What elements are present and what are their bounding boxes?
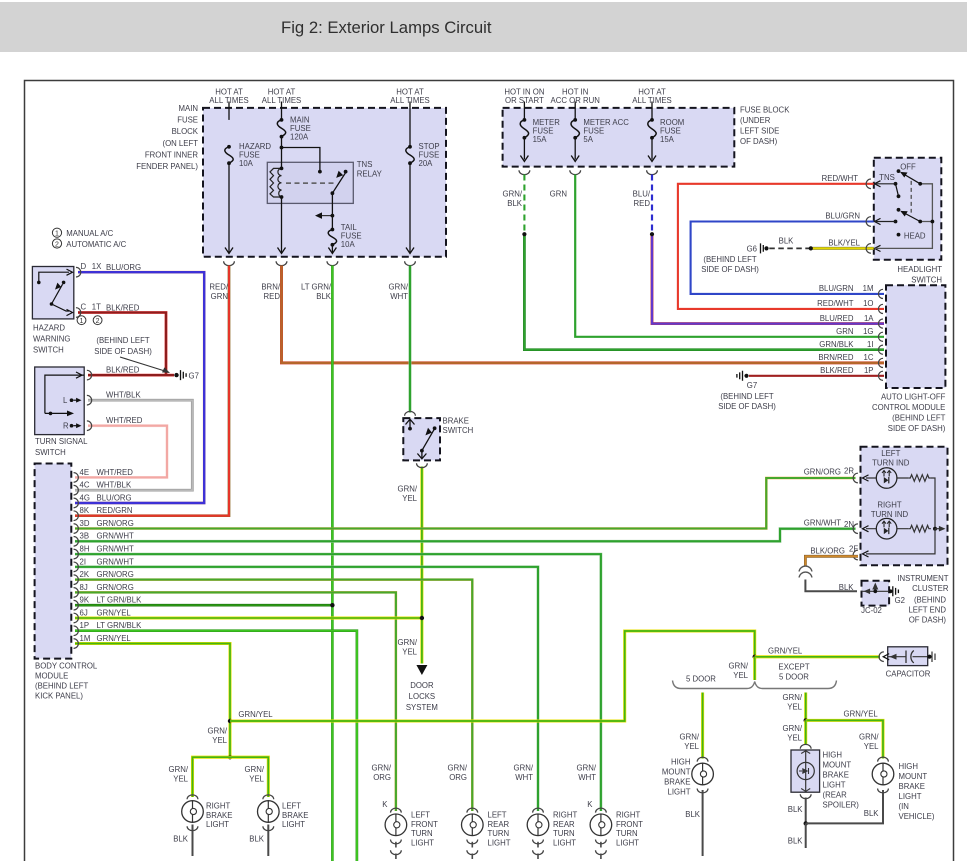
right brake light bulb <box>182 801 204 823</box>
svg-text:BLK: BLK <box>864 809 880 818</box>
wire WHT/BLK turn L to BCM 4C <box>75 400 192 490</box>
brake switch arm <box>420 426 437 452</box>
wire GRN/YEL BCM 6J to brake sw out <box>75 616 422 619</box>
svg-text:4G: 4G <box>80 493 90 502</box>
wire break symbol (interrupt) <box>799 566 812 577</box>
wire BLU/GRN headlight switch to module 1M <box>691 222 884 294</box>
connector below hmbl vehicle bulb <box>878 789 889 793</box>
svg-text:1O: 1O <box>863 299 873 308</box>
headlight switch pin arrow BLK/YEL <box>875 245 881 251</box>
svg-text:(BEHIND LEFTSIDE OF DASH): (BEHIND LEFTSIDE OF DASH) <box>701 255 759 274</box>
connector below fuse block pin 2 <box>570 170 581 174</box>
turn signal switch box <box>35 367 84 435</box>
hazard pin D connector <box>76 267 81 277</box>
hazard warning switch box <box>32 267 73 319</box>
wire BLK/ORG cluster 2F <box>805 556 858 565</box>
legend circled 1 <box>52 228 61 238</box>
svg-text:GRN/ORG: GRN/ORG <box>97 570 134 579</box>
wire meter acc fuse to block bottom <box>574 138 576 160</box>
headlight switch mechanical dashed link <box>910 181 912 213</box>
connector below fuse block pin 1 <box>519 170 530 174</box>
svg-text:GRN: GRN <box>836 327 853 336</box>
wire tail fuse to block bottom <box>331 245 333 253</box>
wire tail fuse branch arrow <box>318 215 333 217</box>
svg-text:BLK: BLK <box>249 835 265 844</box>
hazard circled 1 <box>77 316 86 325</box>
wire below left front turn light <box>395 842 397 848</box>
connector below left rear turn bulb <box>467 840 478 844</box>
junction 6J on GRN/YEL <box>420 616 424 620</box>
right turn resistor <box>908 525 931 532</box>
wire BLK left brake light <box>267 825 269 857</box>
svg-text:BLK: BLK <box>173 835 189 844</box>
svg-text:HEAD: HEAD <box>904 231 926 240</box>
stop fuse 20A <box>406 145 414 165</box>
BCM pin connector row 12 <box>74 613 79 623</box>
cluster pin 2N arrow <box>863 526 869 532</box>
svg-text:BLK/RED: BLK/RED <box>820 366 854 375</box>
auto light-off module pin 1M connector <box>878 289 883 298</box>
capacitor internal symbol <box>888 651 928 664</box>
svg-text:BRN/RED: BRN/RED <box>261 283 280 302</box>
svg-text:DOORLOCKSSYSTEM: DOORLOCKSSYSTEM <box>406 681 438 712</box>
headlight switch pin arrow TNS <box>875 181 881 187</box>
headlight switch pin arrow BLU/GRN <box>875 218 881 224</box>
cluster arrow to right edge <box>935 526 946 532</box>
svg-text:L: L <box>63 396 68 405</box>
wire meter fuse to block bottom <box>523 138 525 160</box>
wire BLK/YEL headlight switch to G6 splice <box>811 247 874 250</box>
svg-text:GRN/ORG: GRN/ORG <box>97 519 134 528</box>
svg-text:BLU/GRN: BLU/GRN <box>825 212 860 221</box>
cluster pin 2R connector <box>853 473 858 483</box>
svg-text:C: C <box>81 303 87 312</box>
svg-text:1G: 1G <box>863 327 873 336</box>
svg-text:GRN/WHT: GRN/WHT <box>804 519 841 528</box>
junction tail branch <box>331 214 335 218</box>
headlight switch HEAD side contacts <box>875 208 923 237</box>
svg-text:TNS: TNS <box>879 173 895 182</box>
svg-text:GRN/YEL: GRN/YEL <box>768 647 803 656</box>
svg-text:Fig 2: Exterior Lamps Circuit: Fig 2: Exterior Lamps Circuit <box>281 18 492 37</box>
wire GRN/YEL except-5-door branch <box>804 693 807 721</box>
wire GRN/WHT BCM 2I to right rear turn light <box>75 567 538 811</box>
wire BRN/RED main fuse to module 1C <box>282 266 885 363</box>
svg-text:GRN/BLK: GRN/BLK <box>819 340 854 349</box>
wire relay coil to block bottom <box>281 197 283 253</box>
auto light-off module pin 1A connector <box>878 319 883 328</box>
meter fuse 15A <box>520 118 528 140</box>
headlight switch internal bus <box>875 184 933 249</box>
TNS relay link dashed line <box>286 182 336 184</box>
connector above right rear turn bulb <box>533 808 544 812</box>
cluster pin 2N connector <box>853 524 858 534</box>
wire GRN/YEL to capacitor <box>755 655 880 658</box>
connector above spoiler HMBL <box>800 744 811 748</box>
svg-text:(BEHINDLEFT ENDOF DASH): (BEHINDLEFT ENDOF DASH) <box>908 596 946 625</box>
svg-text:G2: G2 <box>895 596 905 605</box>
headlight switch box <box>874 158 942 260</box>
connector below right front turn bulb <box>596 840 607 844</box>
svg-text:GRN/WHT: GRN/WHT <box>97 532 134 541</box>
svg-text:BLK/ORG: BLK/ORG <box>810 547 845 556</box>
svg-text:(BEHIND LEFTSIDE OF DASH): (BEHIND LEFTSIDE OF DASH) <box>718 392 776 411</box>
svg-text:9K: 9K <box>80 596 90 605</box>
connector above left rear turn bulb <box>467 808 478 812</box>
BCM pin connector row 10 <box>74 588 79 598</box>
splice dot BLU/RED <box>650 232 654 236</box>
svg-text:OFF: OFF <box>900 162 916 171</box>
svg-text:GRN/ORG: GRN/ORG <box>372 764 392 783</box>
cluster bus junction <box>933 527 937 531</box>
svg-text:BLU/GRN: BLU/GRN <box>819 284 854 293</box>
wire GRN/WHT stop fuse to brake switch <box>409 266 412 413</box>
wire stub bottom left rear turn light <box>471 854 473 860</box>
wire GRN/YEL split to right brake light <box>193 757 231 797</box>
BCM pin connector row 11 <box>74 600 79 610</box>
connector below main fuse block pin 4 <box>405 261 416 265</box>
connector below main fuse block pin 3 <box>327 261 338 265</box>
wire feed stub to main fuse <box>281 102 283 120</box>
ground G7 (right) symbol <box>737 371 743 381</box>
svg-text:G6: G6 <box>747 245 757 254</box>
BCM pin connector row 9 <box>74 575 79 585</box>
wire GRN/BLK meter fuse dashed <box>523 175 525 235</box>
svg-text:1A: 1A <box>864 314 874 323</box>
ground G7 (left) symbol <box>181 370 187 380</box>
svg-text:BLK/YEL: BLK/YEL <box>828 239 860 248</box>
hazard switch wire to pin D <box>37 272 69 284</box>
wire GRN/WHT BCM 8H to right front turn light <box>75 554 601 811</box>
wire stop fuse to block bottom <box>409 163 411 252</box>
JC-02 internal wires <box>862 583 890 595</box>
svg-text:BLU/ORG: BLU/ORG <box>106 263 141 272</box>
left front turn light bulb <box>385 814 407 836</box>
svg-text:RIGHTBRAKELIGHT: RIGHTBRAKELIGHT <box>206 802 232 830</box>
right rear turn light bulb <box>527 814 549 836</box>
svg-text:CAPACITOR: CAPACITOR <box>886 670 931 679</box>
brake switch box <box>403 418 440 460</box>
svg-text:BLK: BLK <box>788 837 804 846</box>
connector below right rear turn bulb <box>533 840 544 844</box>
auto light-off module pin 1P connector <box>878 371 883 380</box>
svg-text:2: 2 <box>55 241 59 248</box>
svg-text:LT GRN/BLK: LT GRN/BLK <box>97 621 143 630</box>
svg-text:GRN/ORG: GRN/ORG <box>804 467 841 476</box>
headlight switch pin connector TNS <box>866 179 871 189</box>
svg-text:WHT/RED: WHT/RED <box>97 468 134 477</box>
junction GRN/YEL at y721 <box>228 719 232 723</box>
TNS relay box <box>267 162 353 203</box>
svg-text:1X: 1X <box>92 262 102 271</box>
svg-text:BLK/RED: BLK/RED <box>106 365 140 374</box>
wire RED/WHT headlight switch to module 1O <box>678 184 884 309</box>
wire below left rear turn light <box>471 842 473 848</box>
headlight switch OFF contact and arm <box>897 169 923 186</box>
cluster bus down to 2F <box>866 529 935 554</box>
BCM pin connector row 6 <box>74 537 79 547</box>
cluster pin 2F connector <box>853 550 858 560</box>
svg-text:BLK/RED: BLK/RED <box>106 304 140 313</box>
wire stub bottom left front turn light <box>395 854 397 860</box>
svg-text:1: 1 <box>80 318 84 325</box>
turn signal top pin connector <box>87 370 92 380</box>
wire BLK right brake light <box>192 825 194 857</box>
connector below right rear turn light <box>533 850 544 854</box>
hazard pin D arrow <box>67 269 73 275</box>
wire BLK/RED G7 to module 1P <box>749 375 884 377</box>
connector below left brake bulb <box>263 826 274 830</box>
svg-text:1: 1 <box>55 231 59 238</box>
wire GRN/ORG BCM 2K to left rear turn light <box>75 580 472 811</box>
wire feed stub to stop fuse <box>409 102 411 148</box>
turn signal R pin connector <box>87 421 92 431</box>
right turn indicator lamp <box>876 518 897 539</box>
turn signal top pin arrow <box>76 372 82 378</box>
wire relay switch to tail fuse <box>331 193 333 229</box>
arrowhead meter feed out <box>520 156 528 162</box>
high mount brake light (5 door) bulb <box>692 763 714 785</box>
bracket 5 door / except 5 door <box>673 681 837 689</box>
svg-text:BLU/RED: BLU/RED <box>820 314 854 323</box>
hazard circled 2 <box>93 316 102 325</box>
svg-text:8K: 8K <box>80 506 90 515</box>
connector below brake switch <box>417 463 428 467</box>
svg-text:3D: 3D <box>80 519 90 528</box>
wire stub bottom right front turn light <box>600 854 602 860</box>
connector below hmbl 5door bulb <box>697 789 708 793</box>
brake switch input arrow <box>406 419 415 429</box>
wire GRN/YEL to in-vehicle HMBL <box>806 720 883 758</box>
wire stub bottom right rear turn light <box>537 854 539 860</box>
svg-text:EXCEPT5 DOOR: EXCEPT5 DOOR <box>778 663 809 682</box>
dot at G7 right <box>744 374 748 378</box>
wire GRN/ORG BCM 8J to left front turn light <box>75 592 396 811</box>
connector below left rear turn light <box>467 850 478 854</box>
header title bar <box>0 2 967 52</box>
svg-text:1P: 1P <box>864 366 874 375</box>
cluster left turn indicator wire <box>866 477 908 479</box>
dot at G6 <box>764 246 768 250</box>
turn signal switch bus wire <box>45 375 84 413</box>
left turn indicator lamp <box>876 468 897 489</box>
wire hazard fuse to block bottom <box>228 163 230 252</box>
connector below main fuse block pin 1 <box>224 261 235 265</box>
svg-text:RED/GRN: RED/GRN <box>209 283 228 302</box>
svg-text:2R: 2R <box>844 467 854 476</box>
svg-text:1M: 1M <box>80 634 91 643</box>
svg-text:2K: 2K <box>80 570 90 579</box>
svg-text:WHT/BLK: WHT/BLK <box>106 390 141 399</box>
svg-text:3B: 3B <box>80 532 90 541</box>
splice dot BLK/YEL-BLK <box>809 246 813 250</box>
junction GRN/YEL brake light split <box>228 755 232 759</box>
svg-text:BLK: BLK <box>779 237 795 246</box>
BCM pin connector row 7 <box>74 549 79 559</box>
brake switch output arrow <box>417 451 426 459</box>
cluster left turn wire to bus <box>931 478 935 529</box>
capacitor box <box>888 647 928 666</box>
wire GRN/YEL node to bracket <box>753 657 756 680</box>
connector below left front turn light <box>391 850 402 854</box>
legend circled 2 <box>52 239 61 249</box>
svg-text:GRN/YEL: GRN/YEL <box>97 634 132 643</box>
capacitor left connector <box>879 652 884 662</box>
svg-text:1P: 1P <box>80 621 90 630</box>
body control module box <box>35 464 72 659</box>
connector above right front turn bulb <box>596 808 607 812</box>
svg-text:GRN/WHT: GRN/WHT <box>97 544 134 553</box>
svg-text:GRN/WHT: GRN/WHT <box>97 557 134 566</box>
spoiler HMBL internal lamp <box>797 750 814 792</box>
wire LT GRN/BLK BCM 9K to splice <box>75 604 332 607</box>
svg-text:BLK: BLK <box>839 583 855 592</box>
TNS relay switch arm <box>318 170 348 195</box>
wire GRN/YEL brake switch to door locks <box>420 467 423 664</box>
svg-text:BLK: BLK <box>788 805 804 814</box>
meter acc fuse 5A <box>571 118 579 140</box>
connector below left front turn bulb <box>391 840 402 844</box>
connector above left front turn bulb <box>391 808 402 812</box>
connector above hmbl vehicle bulb <box>878 757 889 761</box>
BCM pin connector row 4 <box>74 511 79 521</box>
wire feed stub to hazard fuse <box>228 102 230 120</box>
wire GRN/YEL BCM 1M to brake lights <box>75 644 230 758</box>
high mount brake light (in vehicle) bulb <box>872 763 894 785</box>
wire branch main fuse to relay contact <box>282 148 320 172</box>
turn signal L contact <box>70 398 82 403</box>
svg-text:2: 2 <box>96 318 100 325</box>
arrowhead stop feed out <box>406 248 414 254</box>
svg-text:1T: 1T <box>92 303 101 312</box>
svg-text:2F: 2F <box>849 545 858 554</box>
svg-text:BRN/RED: BRN/RED <box>818 353 853 362</box>
svg-text:G7: G7 <box>747 381 757 390</box>
wire GRN/YEL split to left brake light <box>230 757 268 797</box>
instrument cluster box <box>861 447 948 566</box>
wire GRN/YEL 5-door branch <box>701 693 704 759</box>
BCM pin connector row 1 <box>74 473 79 483</box>
BCM pin connector row 14 <box>74 639 79 649</box>
wire GRN/WHT BCM 3B to cluster 2N <box>75 529 856 542</box>
svg-text:GRN/YEL: GRN/YEL <box>844 710 879 719</box>
wire main fuse to relay coil <box>281 137 283 169</box>
connector below spoiler HMBL <box>800 794 811 798</box>
connector below right front turn light <box>596 850 607 854</box>
hazard fuse 10A <box>225 145 233 165</box>
svg-text:GRN/YEL: GRN/YEL <box>238 710 273 719</box>
svg-text:8H: 8H <box>80 544 90 553</box>
svg-text:4E: 4E <box>80 468 90 477</box>
callout arrow to G7 <box>120 357 170 373</box>
JC-02 joint connector box <box>862 581 890 606</box>
splice dot GRN/BLK <box>522 232 526 236</box>
high mount brake light (rear spoiler) box <box>791 750 820 792</box>
headlight switch TNS contact pair <box>875 182 901 198</box>
hazard switch arm <box>50 281 66 306</box>
svg-text:BLU/RED: BLU/RED <box>633 190 651 209</box>
BCM pin connector row 5 <box>74 524 79 534</box>
hazard pin C connector <box>76 308 81 318</box>
svg-text:JC-02: JC-02 <box>861 606 882 615</box>
junction BLK spoiler <box>804 821 808 825</box>
wire feed stub to meter acc fuse <box>574 102 576 120</box>
wire BLU/RED room fuse to module 1A <box>652 234 884 323</box>
ground dot G7 left <box>174 373 178 377</box>
svg-text:WHT/RED: WHT/RED <box>106 416 143 425</box>
wire feed stub to room fuse <box>651 102 653 120</box>
svg-text:GRN/WHT: GRN/WHT <box>389 283 409 302</box>
svg-text:MAINFUSE120A: MAINFUSE120A <box>290 116 311 142</box>
dot at G2 <box>889 589 893 593</box>
left rear turn light bulb <box>462 814 484 836</box>
right front turn light bulb <box>590 814 612 836</box>
wire room fuse to block bottom <box>651 138 653 160</box>
connector below main fuse block pin 2 <box>276 261 287 265</box>
capacitor right dot <box>927 655 931 659</box>
svg-text:GRN/WHT: GRN/WHT <box>514 764 534 783</box>
svg-text:2N: 2N <box>844 520 854 529</box>
hazard switch wire to pin C <box>52 304 70 311</box>
connector above right brake bulb <box>187 795 198 799</box>
wire LT GRN/BLK tail fuse vertical <box>331 266 334 861</box>
ground G2 symbol <box>893 586 899 596</box>
wire BLK spoiler HMBL to junction <box>805 798 807 824</box>
wire BLK/RED turn signal to G7 splice <box>88 374 174 377</box>
turn signal L pin connector <box>87 395 92 405</box>
svg-text:RED/WHT: RED/WHT <box>817 299 854 308</box>
cluster right turn indicator wire <box>866 528 908 530</box>
wire below right front turn light <box>600 842 602 848</box>
wire GRN meter acc fuse to module 1G <box>575 175 884 337</box>
turn signal switch wiper arm <box>45 411 74 417</box>
BCM pin connector row 3 <box>74 498 79 508</box>
svg-text:GRN/YEL: GRN/YEL <box>97 608 132 617</box>
BCM pin connector row 2 <box>74 485 79 495</box>
svg-text:GRN/ORG: GRN/ORG <box>448 764 468 783</box>
wire GRN/YEL to spoiler HMBL <box>804 720 807 744</box>
capacitor right tail symbol <box>932 652 935 663</box>
arrowhead meter acc feed out <box>571 156 579 162</box>
auto light-off module pin 1G connector <box>878 332 883 341</box>
svg-text:LT GRN/BLK: LT GRN/BLK <box>97 596 143 605</box>
left brake light bulb <box>258 801 280 823</box>
auto light-off module pin 1C connector <box>878 358 883 367</box>
arrowhead tail branch <box>315 212 322 219</box>
svg-text:G7: G7 <box>189 371 199 380</box>
connector above left brake bulb <box>263 795 274 799</box>
wire GRN/BLK meter fuse to module 1I <box>524 234 884 350</box>
wire BLK/RED hazard C to G7 splice <box>78 313 166 376</box>
arrowhead main feed out <box>278 248 286 254</box>
junction GRN/YEL except node <box>804 718 808 722</box>
connector above hmbl 5door bulb <box>697 757 708 761</box>
wire BLK dashed to G6 <box>769 247 811 249</box>
wire LT GRN/BLK BCM 1P down <box>75 631 357 861</box>
wire BLU/ORG hazard D to BCM 4G <box>75 272 204 503</box>
junction main fuse branch <box>280 146 284 150</box>
svg-text:D: D <box>81 262 87 271</box>
auto light-off module pin 1O connector <box>878 304 883 313</box>
wire BLK below junction <box>805 823 807 848</box>
hazard pin C arrow <box>67 309 73 315</box>
wire BLK 5-door HMBL <box>702 790 704 856</box>
brake switch upper contact <box>408 427 412 431</box>
svg-text:BRAKESWITCH: BRAKESWITCH <box>443 416 474 435</box>
arrowhead hazard feed out <box>225 248 233 254</box>
junction GRN/YEL capacitor node <box>753 655 757 659</box>
svg-text:5 DOOR: 5 DOOR <box>686 675 716 684</box>
